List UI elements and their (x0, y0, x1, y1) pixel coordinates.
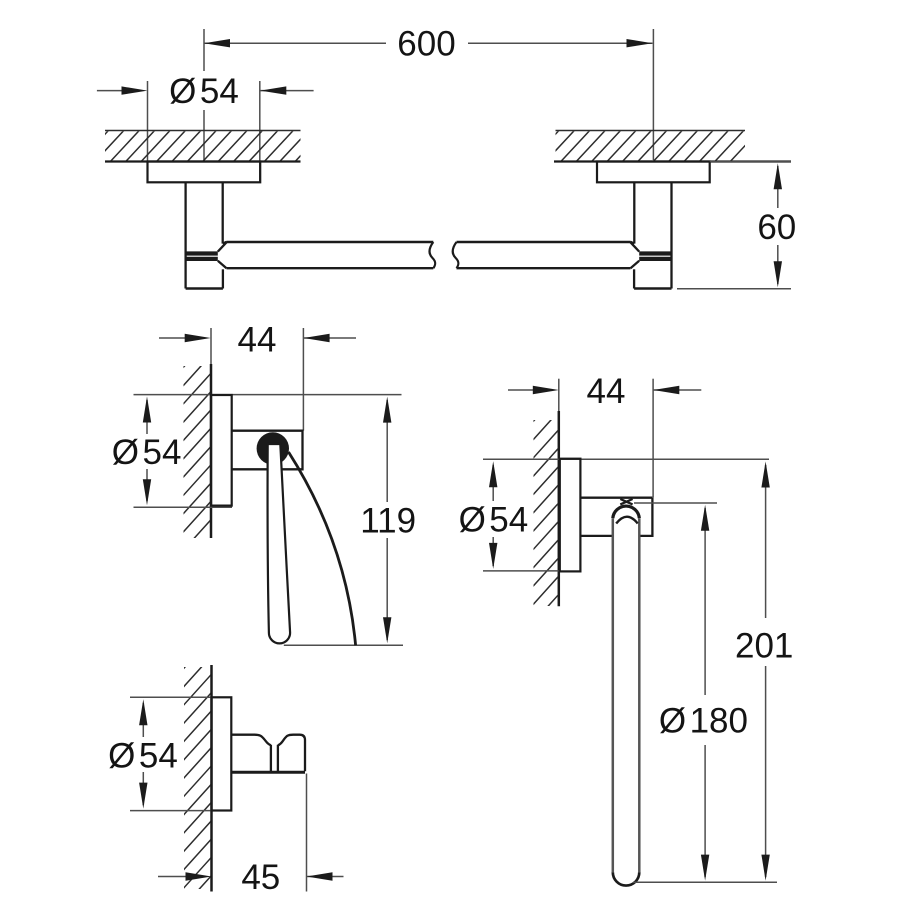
centerline right post (652, 29, 654, 160)
svg-text:45: 45 (241, 858, 280, 897)
seam rings left post (186, 251, 218, 255)
svg-text:Ø54: Ø54 (169, 72, 239, 111)
backplate (robe hook) (212, 697, 232, 810)
ring inner top arc (616, 517, 638, 524)
cover blade (paper holder) (268, 444, 291, 643)
extension top Ø180 (towel ring) (634, 502, 717, 504)
extension bottom 201/Ø180 (towel ring) (633, 881, 777, 883)
svg-text:119: 119 (360, 502, 416, 541)
backplate (paper holder) (211, 395, 232, 506)
dimension Ø54 (robe hook) (142, 703, 144, 737)
svg-text:201: 201 (735, 627, 793, 666)
pivot roller (paper holder) (257, 432, 289, 464)
svg-text:60: 60 (757, 208, 796, 247)
extension bottom Ø54 (robe hook) (130, 810, 232, 812)
right post of towel bar (670, 182, 672, 288)
extension top Ø54/201 (towel ring) (483, 458, 769, 460)
housing (towel ring) (580, 497, 652, 499)
towel bar tube left segment (227, 241, 434, 243)
wall line (towel ring) (558, 411, 561, 606)
svg-text:Ø54: Ø54 (112, 433, 182, 472)
svg-text:Ø180: Ø180 (659, 702, 748, 741)
svg-text:Ø54: Ø54 (108, 737, 178, 776)
towel bar tube right segment (457, 241, 631, 243)
dimension 44 (paper holder depth) (159, 337, 186, 339)
svg-text:600: 600 (397, 25, 455, 64)
break line left (430, 242, 436, 268)
break line right (453, 242, 459, 268)
left post of towel bar (184, 182, 186, 288)
dimension Ø54 (left post flange) (97, 90, 123, 92)
wall line (paper holder) (210, 364, 213, 538)
extension bottom Ø54 (paper holder) (134, 506, 233, 508)
pivot joint (towel ring) (620, 499, 632, 504)
dimension Ø180 (towel ring) (704, 508, 706, 695)
seam rings right post (639, 251, 671, 255)
dimension 600 (towel bar length) (204, 42, 386, 44)
backplate (towel ring) (560, 459, 581, 572)
extension bottom Ø54 (towel ring) (483, 570, 559, 572)
dimension 201 (towel ring) (765, 465, 767, 618)
mounting plate right (597, 162, 710, 183)
dimension 119 (paper holder height) (386, 400, 388, 502)
mounting plate left (148, 162, 261, 183)
hook body (robe hook) (231, 735, 271, 746)
svg-text:44: 44 (587, 372, 626, 411)
svg-text:44: 44 (238, 321, 277, 360)
centerline left post (203, 110, 205, 161)
dimension 60 (wall to bar bottom) (710, 161, 791, 163)
dimension Ø54 (paper holder) (146, 400, 148, 434)
housing (paper holder) (232, 431, 303, 470)
dimension 45 (robe hook) (158, 876, 187, 878)
wall surface line left (105, 160, 301, 162)
dimension Ø54 (towel ring) (492, 465, 494, 501)
svg-text:Ø54: Ø54 (459, 501, 529, 540)
dimension 44 (ring depth) (508, 389, 534, 391)
extension top Ø54 (robe hook) (130, 696, 232, 698)
extension top (paper holder) (134, 394, 402, 396)
wall surface line right (554, 160, 791, 162)
ring outer silhouette (613, 506, 640, 518)
cover edge curve (paper holder) (289, 452, 356, 645)
wall line (robe hook) (210, 665, 213, 892)
